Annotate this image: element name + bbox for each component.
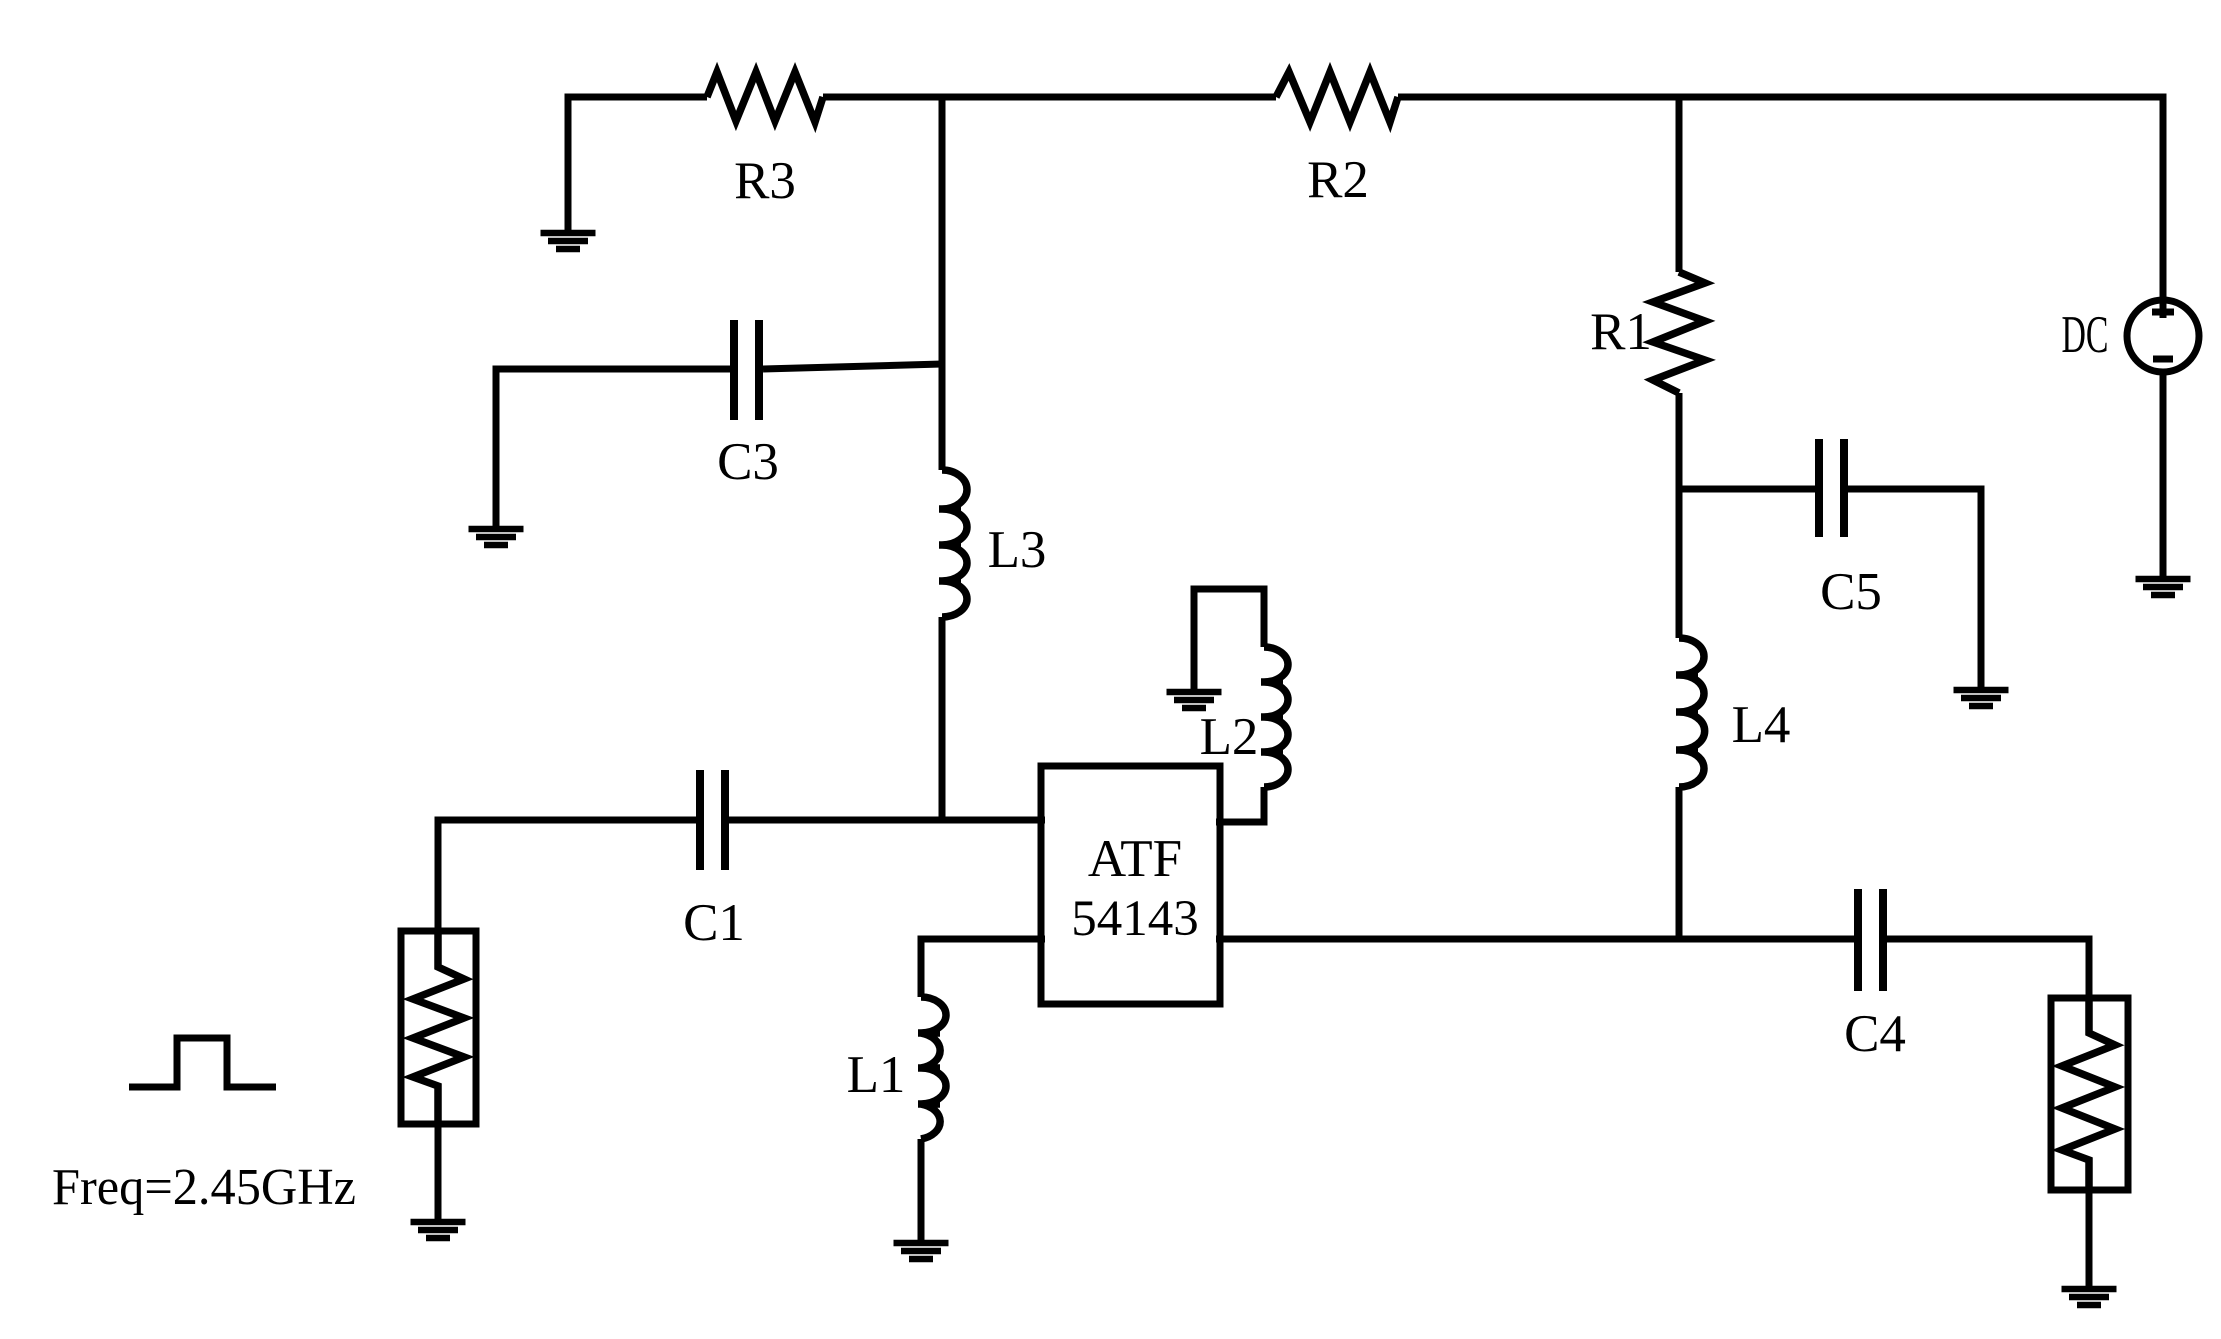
capacitor C3 (734, 320, 759, 420)
ground (L1) (894, 1243, 949, 1259)
wire top rail left stub and segment to R3 (568, 97, 707, 230)
capacitor C4 (1858, 889, 1883, 991)
capacitor C1 (700, 770, 725, 870)
wire C1 to ATF gate pin (728, 817, 1045, 824)
wire port P2 to ground (2086, 1190, 2093, 1286)
svg-text:L2: L2 (1200, 708, 1259, 766)
svg-text:54143: 54143 (1071, 891, 1199, 947)
inductor L2 (1261, 647, 1288, 787)
wire ATF source pin to L1 (921, 939, 1045, 997)
svg-text:C1: C1 (683, 894, 745, 952)
inductor L4 (1676, 638, 1705, 787)
wire C5 right and drop to ground (1848, 489, 1981, 687)
voltage source DC minus mark (2153, 356, 2173, 363)
wire C4 to port P2 (1887, 939, 2089, 998)
svg-text:C5: C5 (1820, 563, 1882, 621)
svg-text:L4: L4 (1732, 696, 1791, 754)
resistor R3 (707, 72, 823, 122)
ground (C5) (1954, 690, 2009, 706)
ground (C3 left) (469, 529, 524, 545)
wire L4 to drain node (1676, 787, 1683, 939)
svg-text:R2: R2 (1307, 151, 1369, 209)
wire gate spine upper (node between R3 and L3) (939, 97, 946, 470)
svg-text:R1: R1 (1590, 303, 1652, 361)
wire C3 left and drop to ground (496, 369, 730, 526)
capacitor C5 (1819, 439, 1844, 537)
port P2 termination resistor (2062, 998, 2115, 1190)
ground (port P1) (411, 1222, 466, 1238)
ground (top left) (541, 233, 596, 249)
wire C5 tap (1679, 486, 1815, 493)
wire ATF drain pin to C4 (1216, 936, 1854, 943)
wire DC source to ground (2160, 372, 2167, 576)
port P2 box (2051, 998, 2128, 1190)
svg-text:C3: C3 (717, 433, 779, 491)
ground (DC source) (2136, 579, 2191, 595)
wire L1 to ground (918, 1139, 925, 1240)
voltage source DC circle (2127, 300, 2199, 372)
svg-text:L3: L3 (988, 521, 1047, 579)
wire R1 to C5 node (1676, 393, 1683, 489)
ground (port P2) (2062, 1289, 2117, 1305)
port P1 termination resistor (413, 931, 464, 1124)
svg-text:R3: R3 (734, 152, 796, 210)
resistor R2 (1276, 72, 1398, 122)
voltage source DC plus mark (2152, 309, 2174, 316)
wire top rail R2 to DC source (1398, 97, 2163, 318)
wire gate spine lower (L3 to gate node) (939, 617, 946, 820)
transistor U1 ATF-54143 body (1041, 766, 1220, 1004)
port P1 box (401, 931, 476, 1124)
ground (L2) (1167, 692, 1222, 708)
svg-text:ATF: ATF (1088, 830, 1182, 888)
resistor R1 (1653, 272, 1705, 393)
svg-text:C4: C4 (1844, 1005, 1906, 1063)
wire L2 ground leg and top hook (1194, 589, 1264, 689)
wire C5 node to L4 (1676, 489, 1683, 638)
wire L2 bottom to ATF pin (1216, 787, 1264, 822)
pulse source symbol (129, 1038, 276, 1087)
wire C3 right to gate spine (763, 364, 942, 369)
svg-text:DC: DC (2062, 306, 2109, 364)
inductor L3 (939, 470, 967, 617)
wire port P1 to ground (435, 1124, 442, 1219)
inductor L1 (918, 997, 946, 1139)
svg-text:L1: L1 (847, 1046, 906, 1104)
wire input node to C1 (with drop to port 1) (438, 820, 697, 931)
wire top rail R3 to R2 (823, 94, 1276, 101)
svg-text:Freq=2.45GHz: Freq=2.45GHz (52, 1159, 356, 1216)
wire top rail to R1 (1676, 97, 1683, 272)
